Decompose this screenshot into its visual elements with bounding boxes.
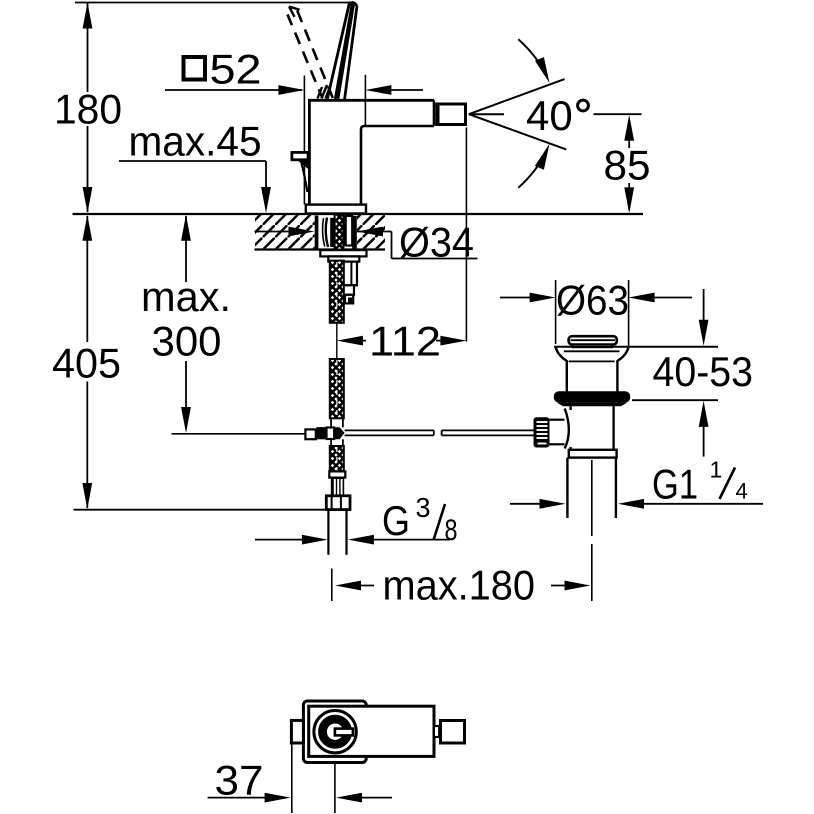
lever dashed [288,7,333,99]
svg-text:37: 37 [215,757,264,804]
dimension 85 [594,114,651,213]
top extent line [75,2,354,4]
svg-text:405: 405 [52,340,121,387]
label square-52 [184,46,262,93]
svg-text:max.180: max.180 [383,562,536,609]
svg-text:85: 85 [604,142,651,189]
svg-text:4: 4 [736,479,748,504]
dimension 52 lines [165,75,423,205]
svg-text:max.: max. [141,273,231,320]
dimension G3/8 [255,492,458,547]
top view body [309,706,434,756]
svg-text:max.45: max.45 [129,118,262,165]
svg-text:G1: G1 [652,461,698,508]
counter top line [73,213,644,215]
side tab + linkage [292,152,310,192]
pop-up rod [172,418,534,446]
counter hatch right [357,215,385,248]
top view nozzle [441,721,465,744]
nozzle [438,104,466,125]
svg-text:3: 3 [416,492,431,523]
svg-text:Ø34: Ø34 [399,219,474,266]
dimension hole arrows + label Ø34 [255,219,478,266]
dimension max.180 [332,562,591,609]
valve lower body [567,406,616,518]
svg-text:8: 8 [445,514,458,547]
svg-text:300: 300 [152,318,222,365]
base plate [306,205,366,214]
dimension G1 1/4 [510,457,763,509]
lever handle [327,3,357,99]
dimension 112 + extension from nozzle [337,128,467,365]
top view slot bar [335,729,353,736]
top view neck [434,726,439,737]
svg-text:1: 1 [710,457,723,483]
top view tab [291,720,303,743]
counter hatch left [255,215,315,248]
valve flange top line / 40-53 upper extent [554,346,718,348]
spray angle 40deg [469,39,566,188]
counter bottom line [255,248,386,250]
svg-text:52: 52 [210,46,262,93]
valve gasket [554,391,630,402]
escutcheon square [303,701,366,763]
dimension Ø63 [500,277,692,346]
valve flare body [556,348,629,392]
dimension 180 [54,3,122,214]
dimension 40-53 [632,289,753,457]
valve knob [534,409,569,449]
faucet body [308,100,438,204]
svg-text:40: 40 [526,92,573,139]
svg-text:112: 112 [369,318,441,365]
dimension 37 [208,744,392,813]
label max.45 + leader [119,118,271,214]
hose end fitting [326,471,350,554]
dimension 405 [52,215,325,510]
valve centerline [591,460,593,536]
svg-text:40-53: 40-53 [653,348,754,395]
top view outer circle [314,711,356,753]
dimension max.300 [141,215,231,433]
supply hose segments [336,323,338,359]
svg-text:180: 180 [54,86,122,133]
valve plug cap [569,336,617,347]
svg-text:G: G [382,497,410,544]
svg-text:Ø63: Ø63 [556,277,629,324]
top view handle ring [323,719,348,744]
mounting hole parts [315,215,357,250]
under-counter washer stack [320,250,366,303]
